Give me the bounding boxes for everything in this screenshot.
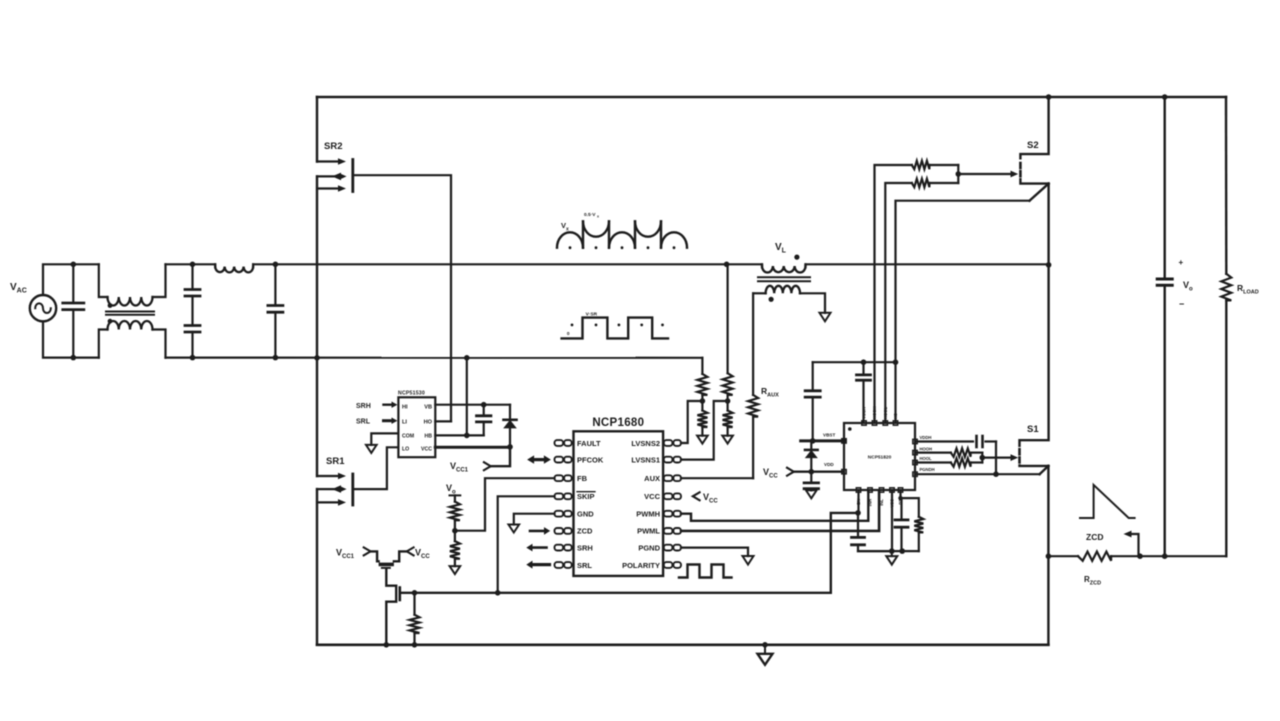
wire VCC into Q2: [394, 551, 407, 561]
wire line rail choke to L1: [166, 263, 216, 265]
resistor Vo divider upper: [450, 494, 461, 496]
wire S2 source to switch node: [1047, 184, 1049, 265]
node HS line at kelvin riser: [893, 359, 899, 365]
transformer VL secondary: [753, 292, 766, 294]
wire HO stub: [435, 420, 451, 422]
node LVSNS2 mid: [700, 398, 706, 404]
svg-text:SRL: SRL: [577, 561, 592, 570]
wire S2 gate merge: [957, 165, 959, 183]
arrow SRL output: [532, 563, 550, 566]
wire bottom ground rail: [317, 643, 1048, 646]
arrow S2 gate: [958, 173, 1011, 175]
pin stub PWML: [664, 528, 673, 534]
pin stub GND: [555, 511, 564, 517]
svg-text:PGNDH: PGNDH: [920, 467, 935, 472]
node C2 top: [190, 262, 196, 268]
transformer CM choke lower winding: [99, 330, 108, 358]
svg-text:HOOL: HOOL: [920, 456, 933, 461]
transistor S1: [1020, 265, 1049, 446]
arrow S1 gate: [982, 457, 1011, 459]
wire left leg mid (SR2 source to SR1 drain): [316, 176, 318, 476]
wire PWML net: [681, 491, 879, 531]
capacitor X-cap stack lower C2b: [185, 324, 200, 327]
U3 bottom pin 1: [856, 488, 860, 492]
wire VCC51530 net: [435, 446, 510, 449]
ground PGND: [747, 555, 749, 557]
node HS line cap junction: [861, 359, 867, 365]
U3 top pin 2: [872, 421, 876, 425]
wire U3 HOL riser: [885, 183, 912, 421]
svg-text:0.5·V: 0.5·V: [584, 212, 596, 218]
svg-text:SR1: SR1: [326, 456, 345, 467]
resistor LVSNS2 lower: [701, 401, 703, 411]
wire VCC to VDD: [794, 471, 844, 473]
pin stub FB: [555, 475, 564, 481]
diode U3 bootstrap: [810, 441, 812, 450]
VL phase dot secondary: [769, 297, 774, 302]
arrow PFCOK bidirectional: [533, 458, 545, 461]
node skip resistor junction: [412, 590, 418, 596]
U3 right pin 3: [913, 460, 917, 464]
node Q3 source at rail: [384, 642, 390, 648]
arrow ZCD input: [530, 530, 545, 533]
node C1 bottom: [71, 355, 77, 361]
svg-text:SRH: SRH: [577, 543, 593, 552]
svg-text:HB: HB: [425, 433, 433, 439]
U3 bottom pin 4: [890, 488, 894, 492]
svg-text:ZCD: ZCD: [577, 527, 593, 536]
pin stub POLARITY: [664, 562, 673, 568]
wire Q2 output to Q3 gate: [386, 569, 396, 645]
resistor Vo divider lower: [454, 531, 456, 541]
wire COM to ground: [371, 433, 398, 445]
svg-text:V·SR: V·SR: [586, 312, 598, 318]
svg-text:VDD: VDD: [824, 462, 834, 467]
U3 top pin 3: [883, 421, 887, 425]
svg-text:VB: VB: [424, 405, 432, 411]
transformer CM choke upper winding: [99, 264, 108, 297]
svg-text:0: 0: [567, 331, 570, 337]
inductor VL primary: [761, 264, 763, 267]
U3 right pin 2: [913, 450, 917, 454]
node DT top junction: [898, 496, 902, 500]
pin stub PFCOK: [555, 457, 564, 463]
wire neutral rail choke to divider drop: [166, 357, 703, 359]
node VB cap junction: [481, 402, 487, 408]
wire VCC1 tag hook: [484, 462, 491, 470]
pin stub SRH: [555, 545, 564, 551]
svg-text:S2: S2: [1027, 140, 1039, 151]
svg-text:COM: COM: [402, 433, 414, 439]
svg-text:NCP51820: NCP51820: [868, 455, 892, 461]
svg-text:S1: S1: [1027, 424, 1039, 435]
resistor LVSNS2 upper: [697, 374, 707, 395]
node neutral cap stack junction: [190, 355, 196, 361]
node boost divider tap junction: [724, 262, 730, 268]
pin stub PGND: [664, 545, 673, 551]
waveform ZCD pulse: [1080, 485, 1135, 518]
U3 left pin 2: [842, 470, 846, 474]
U3 bottom pin 2: [868, 488, 872, 492]
wire RAUX riser: [752, 293, 754, 395]
wire PWMH net: [681, 491, 868, 521]
node switch node junction: [1046, 262, 1052, 268]
wire PGND: [681, 548, 748, 556]
svg-text:NCP1680: NCP1680: [592, 417, 644, 429]
wire U3 HOH riser: [875, 165, 912, 421]
node top-rail S2 drain junction: [1046, 94, 1052, 100]
svg-text:INL: INL: [879, 499, 884, 506]
wire U3 ground bus: [858, 550, 919, 552]
transistor SR2: [317, 160, 341, 162]
resistor S1 gate on: [915, 452, 951, 454]
capacitor X-cap stack upper C2a: [191, 264, 193, 289]
wire SR1 gate to LO: [353, 447, 399, 489]
node Vo divider mid: [452, 528, 458, 534]
svg-text:PWMH: PWMH: [636, 510, 660, 519]
svg-text:POLARITY: POLARITY: [622, 561, 660, 570]
ground LVSNS1 divider: [727, 435, 729, 437]
wire U3 HS kelvin riser: [896, 201, 1030, 421]
node skip resistor at rail: [412, 642, 418, 648]
resistor skip pulldown: [413, 593, 415, 615]
resistor RAUX: [748, 395, 758, 417]
wire SR2 gate to HO riser: [353, 175, 451, 421]
arrow SRH input: [384, 404, 393, 406]
wire line rail L1 to VL: [253, 263, 762, 265]
svg-text:LI: LI: [402, 420, 407, 426]
pin stub PWMH: [664, 511, 673, 517]
svg-text:HO: HO: [424, 420, 433, 426]
svg-text:SRL: SRL: [356, 419, 371, 426]
svg-text:SR2: SR2: [324, 141, 342, 152]
tag VCC at NCP1680: [693, 492, 700, 500]
wire LVSNS1 divider drop: [726, 264, 728, 373]
capacitor VDDH series: [975, 436, 978, 447]
svg-text:LO: LO: [402, 447, 409, 453]
choke phase dot lower: [108, 319, 113, 324]
svg-text:VDDH: VDDH: [920, 435, 932, 440]
waveform polarity square wave: [679, 565, 732, 578]
svg-text:NCP51530: NCP51530: [398, 391, 425, 397]
wire top output rail: [317, 96, 1226, 99]
node bottom-rail ground junction: [762, 642, 768, 648]
arrow SRL input: [384, 419, 393, 422]
diode bootstrap D1: [509, 405, 511, 420]
U3 left pin 1: [842, 439, 846, 443]
node VCC1 feed junction: [507, 444, 513, 450]
capacitor VDDH decoupling: [862, 362, 864, 375]
node SR midpoint neutral junction: [314, 355, 320, 361]
wire line rail VL to switch node: [806, 263, 1049, 265]
svg-text:AUX: AUX: [644, 474, 660, 483]
ground GND pin: [513, 524, 515, 526]
pin stub LVSNS1: [664, 457, 673, 463]
svg-text:VCC: VCC: [644, 492, 660, 501]
transistor SR1: [317, 475, 341, 477]
capacitor bootstrap CBST: [812, 362, 814, 391]
node C1 top: [71, 262, 77, 268]
node S1 kelvin cap junction: [993, 471, 999, 477]
source VAC: [30, 295, 56, 321]
wire U3 VDDH out: [915, 440, 973, 442]
U3 bottom pin 5: [898, 488, 902, 492]
resistor RLOAD: [1225, 97, 1228, 274]
resistor S2 gate on: [912, 161, 930, 169]
wire S1 kelvin: [915, 473, 1040, 475]
capacitor output Co: [1163, 97, 1165, 279]
wire FB to Vo divider: [455, 478, 555, 531]
ground U3: [891, 551, 893, 556]
wire VAC to line rail: [43, 264, 99, 295]
pin stub VCC: [664, 493, 673, 499]
node ground bus left: [889, 548, 895, 554]
U3 right pin 4: [913, 472, 917, 476]
wire HB net: [435, 434, 483, 436]
node LVSNS1 mid: [725, 398, 731, 404]
wire LVSNS2 divider drop: [701, 358, 703, 374]
tag VCC1 lower glyph: [364, 547, 371, 555]
wire left leg upper (top rail to SR2 drain): [316, 97, 318, 162]
svg-text:FB: FB: [577, 474, 588, 483]
capacitor input X-cap C1: [72, 264, 74, 303]
ground Vo divider: [454, 565, 456, 567]
node ground bus right: [899, 548, 905, 554]
wire ZCD to output return: [1111, 555, 1226, 557]
svg-text:−: −: [1179, 299, 1184, 309]
wire AUX to RAUX: [681, 477, 753, 479]
svg-text:INH: INH: [868, 499, 873, 506]
capacitor EN filter: [857, 513, 859, 538]
node S1 gate merge: [980, 455, 986, 461]
transformer CM choke core: [106, 311, 154, 313]
wire ZCD node to bottom rail: [1047, 556, 1049, 645]
waveform Vx rectified: [557, 232, 583, 247]
resistor LVSNS1 lower: [726, 401, 728, 411]
U3 pin1 dot: [848, 427, 852, 431]
waveform SR square wave: [562, 318, 668, 339]
wire HB riser to neutral: [466, 358, 468, 435]
wire VAC to neutral rail: [43, 321, 99, 357]
svg-text:GND: GND: [577, 510, 594, 519]
capacitor DT: [900, 498, 902, 520]
wire SKIP to skip net: [498, 496, 555, 593]
transistor Q2 depletion body: [379, 563, 394, 567]
wire DT pin drop: [901, 491, 919, 517]
arrow ZCD sense: [1130, 534, 1139, 556]
wire VCC1 into Q2: [371, 551, 379, 561]
node ZCD arrow junction: [1137, 553, 1143, 559]
wire VBST net: [801, 439, 844, 442]
inductor input filter L1: [214, 264, 216, 267]
VL phase dot primary: [794, 255, 799, 260]
transformer VL core: [758, 276, 810, 278]
svg-text:HOOH: HOOH: [920, 446, 933, 451]
resistor LVSNS1 upper: [723, 373, 733, 395]
resistor S2 gate off: [912, 179, 930, 187]
wire S1 source to ZCD node: [1047, 466, 1049, 556]
node neutral C3 junction: [273, 355, 279, 361]
wire EN pin drop: [857, 491, 859, 513]
node EN junction: [855, 510, 861, 516]
U3 top pin 1: [862, 421, 866, 425]
capacitor VDD decoupling: [810, 472, 812, 483]
node C3 top: [273, 262, 279, 268]
op-amp U1 NCP1680 box: [574, 431, 664, 576]
transistor S2: [1020, 97, 1048, 158]
wire U3 HS top line: [813, 361, 896, 363]
wire GND pin: [514, 514, 555, 525]
svg-text:PGND: PGND: [638, 543, 660, 552]
pin stub FAULT: [555, 440, 564, 446]
node S2 gate merge: [956, 171, 962, 177]
svg-text:x: x: [597, 215, 599, 219]
svg-text:FAULT: FAULT: [577, 439, 601, 448]
pin stub AUX: [664, 475, 673, 481]
choke phase dot upper: [108, 303, 113, 308]
waveform SR dotted level: [571, 324, 574, 327]
pin stub SKIP: [555, 493, 564, 499]
node SKIP junction: [495, 590, 501, 596]
svg-text:VBST: VBST: [823, 433, 835, 438]
node ZCD S1 junction: [1046, 553, 1052, 559]
node HB riser top: [464, 355, 470, 361]
waveform Vx dotted baseline: [569, 246, 572, 249]
pin stub ZCD: [555, 528, 564, 534]
ground VL secondary: [824, 312, 826, 314]
svg-text:HI: HI: [402, 405, 408, 411]
wire VSS pin drop: [891, 491, 893, 551]
U3 bottom pin 3: [879, 488, 883, 492]
node top-rail output cap junction: [1162, 94, 1168, 100]
node VDD junction: [809, 469, 815, 475]
node HB riser junction: [464, 433, 470, 439]
svg-text:VCC: VCC: [421, 447, 432, 453]
node output cap bottom: [1162, 553, 1168, 559]
svg-text:PFCOK: PFCOK: [577, 455, 604, 464]
resistor RZCD: [1078, 552, 1111, 561]
capacitor bootstrap Cboot51530: [483, 405, 485, 416]
ground LVSNS2 divider: [701, 435, 703, 437]
svg-text:ZCD: ZCD: [1086, 532, 1103, 542]
wire skip net riser: [831, 513, 858, 593]
wire LVSNS2 to divider: [681, 401, 702, 443]
resistor S1 gate off: [915, 461, 951, 463]
wire left leg lower (SR1 body to bottom rail): [316, 489, 318, 645]
wire VB net: [435, 404, 510, 406]
arrow SRH output: [532, 546, 547, 549]
svg-text:SRH: SRH: [356, 403, 371, 410]
capacitor X-cap C3: [274, 264, 276, 305]
svg-text:+: +: [1179, 258, 1184, 267]
ground COM: [370, 444, 372, 446]
tag VCC lower glyph: [407, 547, 414, 555]
wire LVSNS1 to divider: [681, 401, 728, 460]
resistor DT: [914, 517, 923, 533]
svg-text:SKIP: SKIP: [577, 492, 595, 501]
svg-text:LVSNS2: LVSNS2: [631, 439, 660, 448]
op-amp U2 NCP51530 box: [398, 397, 435, 457]
wire skip net: [401, 592, 831, 594]
wire ZCD net: [1048, 555, 1078, 557]
op-amp U3 NCP51820 box: [844, 423, 915, 490]
ground VDD cap: [810, 489, 812, 491]
svg-text:LVSNS1: LVSNS1: [631, 455, 660, 464]
ground main: [764, 645, 766, 654]
pin stub LVSNS2: [664, 440, 673, 446]
svg-text:PWML: PWML: [637, 527, 660, 536]
pin stub SRL: [555, 562, 564, 568]
U3 right pin 1: [913, 439, 917, 443]
tag VCC U3 glyph: [787, 468, 794, 476]
wire S1 gate merge: [981, 453, 983, 463]
transistor Q3 gate bar: [398, 588, 401, 601]
node VBST cap junction: [810, 438, 816, 444]
U3 top pin 4: [893, 421, 897, 425]
